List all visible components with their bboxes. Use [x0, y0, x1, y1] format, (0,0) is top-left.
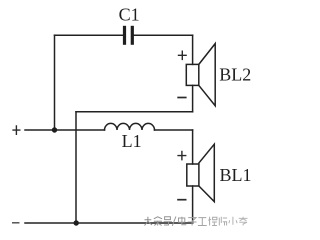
- svg-text:BL2: BL2: [219, 65, 251, 85]
- svg-text:C1: C1: [119, 4, 140, 24]
- svg-text:BL1: BL1: [220, 165, 252, 185]
- svg-text:L1: L1: [122, 131, 142, 151]
